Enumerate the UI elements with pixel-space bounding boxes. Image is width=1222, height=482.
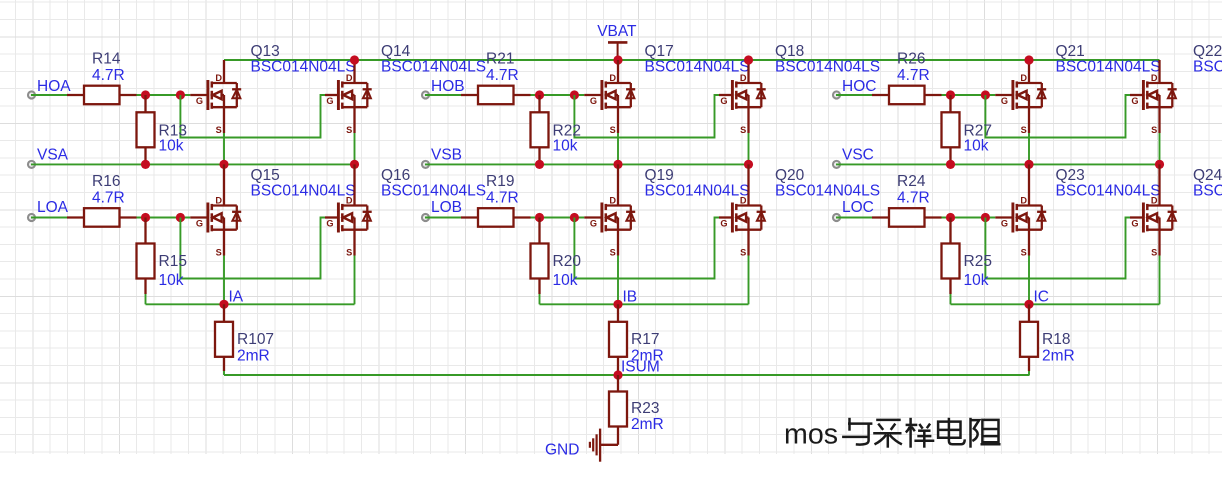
junction rail / Q17 drain [0, 0, 1, 1]
junction VSB / R22 [535, 160, 544, 169]
wire Q18 source to VSB [748, 133, 750, 164]
junction rail / Q21 drain [1024, 55, 1033, 64]
transistor Q19 (BSC014N04LS) [584, 164, 635, 257]
resistor R13 10k pulldown [137, 95, 155, 164]
svg-text:D: D [740, 196, 747, 206]
wire R19 to gate Q19 [531, 217, 585, 219]
wire R107 to ISUM [223, 371, 225, 375]
label R21 value 4.7R [486, 67, 519, 84]
svg-text:Q14: Q14 [381, 43, 411, 60]
wire R20 to IB [539, 294, 541, 304]
label R17 name [631, 331, 659, 348]
svg-text:S: S [1021, 125, 1027, 135]
svg-text:S: S [740, 125, 746, 135]
wire VSC [836, 163, 1160, 165]
junction VBAT/Q17 drain [613, 55, 622, 64]
resistor R24 [872, 208, 942, 227]
svg-text:mos: mos [784, 419, 838, 451]
label Q15 value BSC014N04LS [251, 183, 356, 200]
label R107 value 2mR [237, 348, 270, 365]
svg-text:HOA: HOA [37, 78, 71, 95]
svg-text:4.7R: 4.7R [92, 67, 125, 84]
label VBAT [597, 23, 637, 40]
transistor Q23 (BSC014N04LS) [995, 164, 1046, 257]
svg-text:Q17: Q17 [645, 43, 674, 60]
wire VSB [425, 163, 749, 165]
svg-text:R20: R20 [553, 253, 582, 270]
svg-text:4.7R: 4.7R [92, 190, 125, 207]
svg-text:LOC: LOC [842, 199, 874, 216]
svg-text:10k: 10k [964, 138, 989, 155]
wire Q13 source to VSA [223, 133, 225, 164]
junction gate node / R13 [141, 90, 150, 99]
label Q14 value BSC014N04LS [381, 59, 486, 76]
wire R26 to gate Q21 [942, 94, 996, 96]
junction gate node / interconnect [981, 90, 990, 99]
svg-text:4.7R: 4.7R [897, 190, 930, 207]
junction gate node / interconnect [176, 90, 185, 99]
wire HOC to R26 [836, 94, 872, 96]
node LOC port [833, 214, 840, 221]
label R107 name [237, 331, 274, 348]
svg-text:Q21: Q21 [1056, 43, 1085, 60]
wire gate interconnect Q15-Q16 [180, 218, 325, 279]
resistor R21 [461, 86, 531, 105]
svg-text:2mR: 2mR [1042, 348, 1075, 365]
label R19 name [486, 173, 514, 190]
svg-text:10k: 10k [553, 138, 578, 155]
svg-text:BSC014N04LS: BSC014N04LS [1193, 59, 1222, 76]
ground symbol GND [590, 429, 600, 462]
wire HOA to R14 [31, 94, 67, 96]
svg-text:BSC014N04LS: BSC014N04LS [381, 183, 486, 200]
label R22 value 10k [553, 138, 578, 155]
node HOA port [28, 91, 35, 98]
label R14 name [92, 51, 121, 68]
svg-text:4.7R: 4.7R [486, 190, 519, 207]
label Q23 name [1056, 167, 1085, 184]
svg-text:VBAT: VBAT [597, 23, 637, 40]
transistor Q15 (BSC014N04LS) [190, 164, 241, 257]
label GND [545, 441, 579, 458]
svg-text:Q13: Q13 [251, 43, 280, 60]
wire Q17 source to VSB [617, 133, 619, 164]
junction low gate node / interconnect [981, 213, 990, 222]
label VSC [842, 147, 874, 164]
label R25 value 10k [964, 272, 989, 289]
label Q20 name [775, 167, 805, 184]
label R16 name [92, 173, 120, 190]
wire Q16 source to IA [354, 256, 356, 305]
svg-text:G: G [590, 96, 597, 106]
label HOB [431, 78, 465, 95]
svg-text:G: G [720, 219, 727, 229]
label Q13 value BSC014N04LS [251, 59, 356, 76]
node VSB port [422, 161, 429, 168]
svg-text:Q22: Q22 [1193, 43, 1222, 60]
svg-text:R107: R107 [237, 331, 274, 348]
svg-text:D: D [1151, 196, 1158, 206]
svg-text:Q23: Q23 [1056, 167, 1085, 184]
resistor R23 2mR [600, 375, 627, 445]
svg-text:S: S [740, 248, 746, 258]
wire Q23 source to IC [1028, 256, 1030, 305]
svg-text:R15: R15 [159, 253, 187, 270]
label R18 value 2mR [1042, 348, 1075, 365]
label LOB [431, 199, 462, 216]
wire gate interconnect Q13-Q14 [180, 95, 325, 138]
junction gate node / interconnect [570, 90, 579, 99]
junction low gate node / R15 [141, 213, 150, 222]
wire VSA [31, 163, 355, 165]
svg-text:D: D [1020, 73, 1027, 83]
svg-text:BSC014N04LS: BSC014N04LS [775, 183, 880, 200]
power symbol VBAT [608, 42, 627, 60]
node LOB port [422, 214, 429, 221]
label Q21 name [1056, 43, 1085, 60]
wire gate interconnect Q19-Q20 [574, 218, 719, 279]
resistor R15 10k pulldown [137, 218, 155, 295]
junction VSB / Q17 source [613, 160, 622, 169]
svg-text:S: S [346, 248, 352, 258]
svg-text:G: G [1001, 219, 1008, 229]
svg-text:G: G [326, 219, 333, 229]
label Q17 value BSC014N04LS [645, 59, 750, 76]
svg-text:G: G [590, 219, 597, 229]
wire Q15 source to IA [223, 256, 225, 305]
label Q13 name [251, 43, 280, 60]
label R14 value 4.7R [92, 67, 125, 84]
wire R15 to IA [145, 294, 147, 304]
svg-text:LOB: LOB [431, 199, 462, 216]
label IA [229, 289, 244, 306]
junction VSA / Q13 source [219, 160, 228, 169]
wire R21 to gate Q17 [531, 94, 585, 96]
transistor Q22 (BSC014N04LS) [1130, 60, 1177, 135]
svg-text:S: S [610, 125, 616, 135]
junction VSA / Q14 source [350, 160, 359, 169]
svg-text:IA: IA [229, 289, 244, 306]
label Q18 value BSC014N04LS [775, 59, 880, 76]
svg-text:S: S [610, 248, 616, 258]
label R23 name [631, 400, 659, 417]
svg-text:Q20: Q20 [775, 167, 805, 184]
junction VSA / R13 [141, 160, 150, 169]
svg-text:ISUM: ISUM [621, 359, 660, 376]
label LOC [842, 199, 874, 216]
svg-text:R24: R24 [897, 173, 926, 190]
label Q21 value BSC014N04LS [1056, 59, 1161, 76]
svg-text:VSB: VSB [431, 147, 462, 164]
junction rail / Q18 drain [744, 55, 753, 64]
resistor R25 10k pulldown [942, 218, 960, 295]
label R19 value 4.7R [486, 190, 519, 207]
svg-text:Q19: Q19 [645, 167, 674, 184]
svg-text:BSC014N04LS: BSC014N04LS [251, 59, 356, 76]
wire LOC to R24 [836, 217, 872, 219]
node LOA port [28, 214, 35, 221]
junction rail / Q14 drain [350, 55, 359, 64]
resistor R107 2mR sense [215, 304, 233, 371]
wire HOB to R21 [425, 94, 461, 96]
transistor Q14 (BSC014N04LS) [325, 60, 372, 135]
label Q24 name [1193, 167, 1222, 184]
svg-text:R17: R17 [631, 331, 659, 348]
svg-text:BSC014N04LS: BSC014N04LS [645, 59, 750, 76]
resistor R17 2mR sense [609, 304, 627, 371]
svg-text:VSA: VSA [37, 147, 69, 164]
wire R17 to ISUM [617, 371, 619, 375]
junction VSC / Q22 source [1155, 160, 1164, 169]
svg-text:BSC014N04LS: BSC014N04LS [645, 183, 750, 200]
node HOC port [833, 91, 840, 98]
svg-text:Q15: Q15 [251, 167, 280, 184]
label Q15 name [251, 167, 280, 184]
label Q18 name [775, 43, 804, 60]
wire ISUM [224, 374, 1030, 376]
node VSA port [28, 161, 35, 168]
node HOB port [422, 91, 429, 98]
label HOC [842, 78, 876, 95]
transistor Q20 (BSC014N04LS) [719, 164, 766, 257]
junction IB / R17 [613, 300, 622, 309]
transistor Q17 (BSC014N04LS) [584, 60, 635, 135]
wire LOB to R19 [425, 217, 461, 219]
svg-text:D: D [1020, 196, 1027, 206]
transistor Q24 (BSC014N04LS) [1130, 164, 1177, 257]
label Q22 name [1193, 43, 1222, 60]
label R24 name [897, 173, 926, 190]
label ISUM [621, 359, 660, 376]
resistor R14 [67, 86, 137, 105]
svg-text:G: G [196, 96, 203, 106]
svg-text:G: G [1131, 96, 1138, 106]
wire R14 to gate Q13 [137, 94, 191, 96]
svg-text:HOC: HOC [842, 78, 876, 95]
wire IC node [951, 303, 1160, 305]
label Q24 value BSC014N04LS [1193, 183, 1222, 200]
wire Q21 source to VSC [1028, 133, 1030, 164]
label Q16 name [381, 167, 410, 184]
label R13 name [159, 123, 187, 140]
node VSC port [833, 161, 840, 168]
svg-text:G: G [326, 96, 333, 106]
transistor Q13 (BSC014N04LS) [190, 60, 241, 135]
junction gate node / R22 [535, 90, 544, 99]
wire Q19 source to IB [617, 256, 619, 305]
label R27 value 10k [964, 138, 989, 155]
label LOA [37, 199, 69, 216]
wire IA node [146, 303, 355, 305]
svg-text:G: G [1131, 219, 1138, 229]
label R23 value 2mR [631, 416, 664, 433]
wire Q14 source to VSA [354, 133, 356, 164]
svg-text:BSC014N04LS: BSC014N04LS [775, 59, 880, 76]
label R27 name [964, 123, 992, 140]
label Q16 value BSC014N04LS [381, 183, 486, 200]
label Q20 value BSC014N04LS [775, 183, 880, 200]
svg-text:IB: IB [623, 289, 638, 306]
junction ISUM / R23 [613, 370, 622, 379]
svg-text:10k: 10k [159, 138, 184, 155]
svg-text:4.7R: 4.7R [897, 67, 930, 84]
label VSB [431, 147, 462, 164]
junction rail / Q22 drain [0, 0, 1, 1]
wire gate interconnect Q21-Q22 [985, 95, 1130, 138]
wire LOA to R16 [31, 217, 67, 219]
svg-text:R19: R19 [486, 173, 514, 190]
junction low gate node / interconnect [176, 213, 185, 222]
wire R16 to gate Q15 [137, 217, 191, 219]
resistor R16 [67, 208, 137, 227]
label R15 name [159, 253, 187, 270]
label R26 value 4.7R [897, 67, 930, 84]
label R18 name [1042, 331, 1070, 348]
label R25 name [964, 253, 992, 270]
svg-text:D: D [346, 73, 353, 83]
wire Q22 source to VSC [1159, 133, 1161, 164]
svg-text:10k: 10k [964, 272, 989, 289]
wire gate interconnect Q23-Q24 [985, 218, 1130, 279]
label R17 value 2mR [631, 348, 664, 365]
svg-text:G: G [196, 219, 203, 229]
label IC [1034, 289, 1050, 306]
svg-text:S: S [216, 248, 222, 258]
svg-text:R21: R21 [486, 51, 514, 68]
label Q17 name [645, 43, 674, 60]
label R15 value 10k [159, 272, 184, 289]
svg-text:IC: IC [1034, 289, 1050, 306]
svg-text:2mR: 2mR [237, 348, 270, 365]
svg-text:S: S [216, 125, 222, 135]
svg-text:Q18: Q18 [775, 43, 804, 60]
svg-text:BSC014N04LS: BSC014N04LS [1056, 183, 1161, 200]
svg-text:10k: 10k [159, 272, 184, 289]
svg-text:BSC014N04LS: BSC014N04LS [1193, 183, 1222, 200]
svg-text:Q16: Q16 [381, 167, 410, 184]
title text mos with sampling resistors [784, 418, 1001, 451]
resistor R19 [461, 208, 531, 227]
svg-text:R16: R16 [92, 173, 120, 190]
svg-text:G: G [1001, 96, 1008, 106]
label R13 value 10k [159, 138, 184, 155]
svg-text:R18: R18 [1042, 331, 1070, 348]
svg-text:10k: 10k [553, 272, 578, 289]
label R26 name [897, 51, 925, 68]
junction VSC / R27 [946, 160, 955, 169]
label R22 name [553, 123, 581, 140]
wire R24 to gate Q23 [942, 217, 996, 219]
resistor R20 10k pulldown [531, 218, 549, 295]
label Q22 value BSC014N04LS [1193, 59, 1222, 76]
transistor Q21 (BSC014N04LS) [995, 60, 1046, 135]
svg-text:R25: R25 [964, 253, 992, 270]
wire VBAT rail [224, 59, 1160, 61]
svg-text:S: S [1151, 248, 1157, 258]
junction IA / R107 [219, 300, 228, 309]
svg-text:S: S [1151, 125, 1157, 135]
svg-text:D: D [609, 73, 616, 83]
label Q14 name [381, 43, 411, 60]
resistor R22 10k pulldown [531, 95, 549, 164]
svg-text:HOB: HOB [431, 78, 465, 95]
svg-text:D: D [215, 196, 222, 206]
junction low gate node / R20 [535, 213, 544, 222]
label Q23 value BSC014N04LS [1056, 183, 1161, 200]
wire IB node [540, 303, 749, 305]
resistor R18 2mR sense [1020, 304, 1038, 371]
label IB [623, 289, 638, 306]
resistor R26 [872, 86, 942, 105]
svg-text:D: D [1151, 73, 1158, 83]
svg-text:BSC014N04LS: BSC014N04LS [251, 183, 356, 200]
svg-text:4.7R: 4.7R [486, 67, 519, 84]
svg-text:R26: R26 [897, 51, 925, 68]
svg-text:VSC: VSC [842, 147, 874, 164]
svg-text:D: D [740, 73, 747, 83]
label VSA [37, 147, 69, 164]
label HOA [37, 78, 71, 95]
wire gate interconnect Q17-Q18 [574, 95, 719, 138]
svg-text:R14: R14 [92, 51, 121, 68]
junction VSB / Q18 source [744, 160, 753, 169]
label R21 name [486, 51, 514, 68]
svg-text:G: G [720, 96, 727, 106]
wire R25 to IC [950, 294, 952, 304]
label Q19 value BSC014N04LS [645, 183, 750, 200]
svg-text:R23: R23 [631, 400, 659, 417]
label R20 value 10k [553, 272, 578, 289]
svg-text:D: D [609, 196, 616, 206]
wire Q24 source to IC [1159, 256, 1161, 305]
svg-text:D: D [215, 73, 222, 83]
junction low gate node / R25 [946, 213, 955, 222]
junction gate node / R27 [946, 90, 955, 99]
svg-text:BSC014N04LS: BSC014N04LS [381, 59, 486, 76]
wire Q20 source to IB [748, 256, 750, 305]
label R16 value 4.7R [92, 190, 125, 207]
resistor R27 10k pulldown [942, 95, 960, 164]
svg-text:GND: GND [545, 441, 579, 458]
label Q19 name [645, 167, 674, 184]
label R24 value 4.7R [897, 190, 930, 207]
transistor Q16 (BSC014N04LS) [325, 164, 372, 257]
svg-text:2mR: 2mR [631, 416, 664, 433]
junction low gate node / interconnect [570, 213, 579, 222]
junction VSC / Q21 source [1024, 160, 1033, 169]
svg-text:LOA: LOA [37, 199, 69, 216]
svg-text:S: S [1021, 248, 1027, 258]
label R20 name [553, 253, 582, 270]
junction IC / R18 [1024, 300, 1033, 309]
svg-text:S: S [346, 125, 352, 135]
svg-text:Q24: Q24 [1193, 167, 1222, 184]
transistor Q18 (BSC014N04LS) [719, 60, 766, 135]
svg-text:BSC014N04LS: BSC014N04LS [1056, 59, 1161, 76]
svg-text:D: D [346, 196, 353, 206]
wire R18 to ISUM [1028, 371, 1030, 375]
